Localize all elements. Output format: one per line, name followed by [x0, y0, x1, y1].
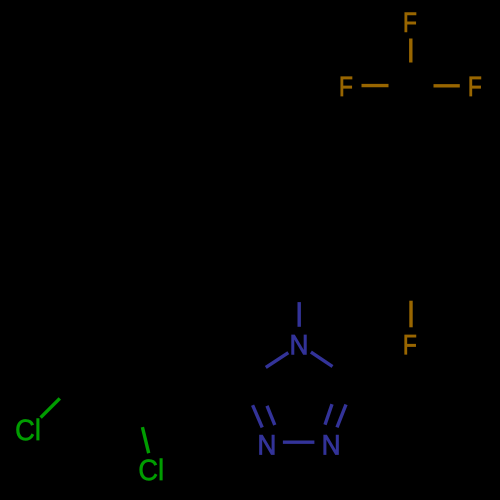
atom label N2 (triazole): N — [324, 435, 339, 454]
wire: bond C-F top of CF3 (F-side half) — [409, 39, 412, 63]
wire: bond N4-C5 (N-side half) — [311, 352, 333, 366]
atom label N4 (triazole): N — [292, 335, 307, 354]
wire: bond C-F right of CF3 (F-side half) — [434, 84, 460, 87]
wire: bond N4-CH3 (N-side half) — [298, 302, 301, 327]
atom label Cl2 (bottom chlorine): Cl — [140, 459, 163, 481]
atom label Cl1 (left chlorine): Cl — [16, 419, 39, 441]
wire: bond ring C-F on benzene (F-side half) — [409, 301, 412, 328]
wire: bond N1-N2 — [283, 441, 315, 444]
wire: double bond C3=N1 inner line — [267, 406, 275, 425]
wire: double bond C5=N2 main line (N-side half) — [337, 405, 346, 428]
wire: double bond C3=N1 main line (N-side half) — [253, 405, 263, 427]
wire: bond ring C-Cl left (Cl-side half) — [41, 398, 60, 417]
wire: bond C-F left of CF3 (F-side half) — [362, 84, 389, 87]
atom label F1 (CF3 top): F — [405, 13, 416, 32]
atom label F3 (CF3 right): F — [470, 77, 481, 96]
atom label N1 (triazole): N — [260, 435, 275, 454]
wire: bond ring C-Cl bottom (Cl-side half) — [142, 427, 148, 453]
wire: bond N4-C3 (N-side half) — [266, 353, 289, 368]
atom label F2 (CF3 left): F — [341, 77, 352, 96]
wire: double bond C5=N2 inner line — [325, 404, 332, 425]
atom label F4 (aryl fluorine): F — [405, 335, 416, 354]
